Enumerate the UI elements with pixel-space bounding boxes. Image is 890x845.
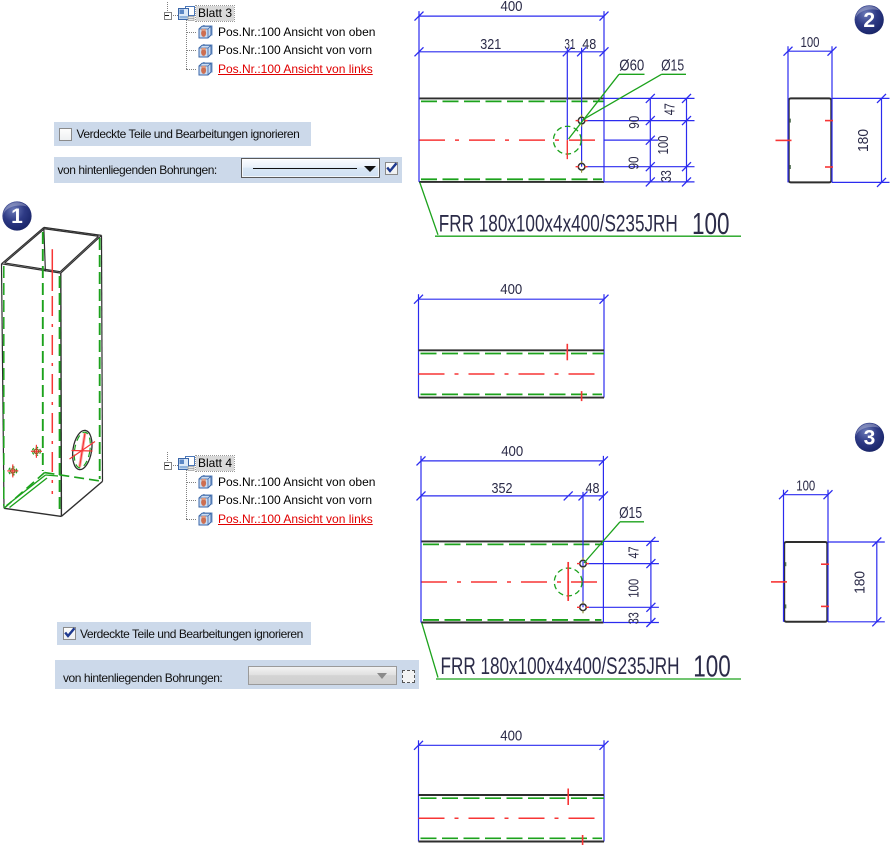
svg-text:180: 180 bbox=[852, 571, 869, 594]
svg-text:400: 400 bbox=[501, 443, 523, 460]
svg-text:321: 321 bbox=[480, 36, 501, 53]
svg-text:48: 48 bbox=[582, 36, 596, 53]
svg-text:FRR 180x100x4x400/S235JRH: FRR 180x100x4x400/S235JRH bbox=[441, 653, 680, 680]
svg-text:100: 100 bbox=[693, 649, 731, 684]
svg-text:33: 33 bbox=[626, 612, 643, 624]
svg-text:400: 400 bbox=[500, 281, 522, 298]
svg-text:100: 100 bbox=[626, 579, 643, 598]
svg-text:400: 400 bbox=[500, 727, 522, 744]
svg-text:90: 90 bbox=[626, 157, 643, 170]
svg-text:47: 47 bbox=[626, 547, 643, 559]
svg-text:1: 1 bbox=[11, 205, 23, 228]
svg-text:100: 100 bbox=[692, 206, 730, 241]
svg-text:100: 100 bbox=[801, 34, 820, 51]
svg-text:100: 100 bbox=[796, 478, 815, 495]
svg-text:2: 2 bbox=[863, 9, 875, 32]
svg-text:Ø15: Ø15 bbox=[661, 58, 684, 75]
svg-text:31: 31 bbox=[564, 36, 575, 53]
svg-text:33: 33 bbox=[658, 170, 675, 182]
svg-text:180: 180 bbox=[855, 129, 872, 152]
svg-text:90: 90 bbox=[626, 116, 643, 129]
svg-text:FRR 180x100x4x400/S235JRH: FRR 180x100x4x400/S235JRH bbox=[439, 210, 678, 237]
svg-text:3: 3 bbox=[864, 426, 876, 449]
svg-text:400: 400 bbox=[501, 0, 523, 15]
svg-text:100: 100 bbox=[655, 136, 672, 155]
svg-text:48: 48 bbox=[586, 480, 600, 497]
svg-text:47: 47 bbox=[662, 103, 679, 115]
svg-text:Ø15: Ø15 bbox=[619, 505, 642, 522]
svg-text:352: 352 bbox=[492, 480, 513, 497]
svg-text:Ø60: Ø60 bbox=[619, 58, 644, 75]
